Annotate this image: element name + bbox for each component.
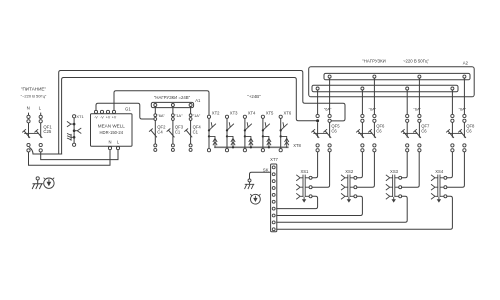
- wires into breaker QF6: [361, 122, 363, 137]
- XS3 pin contact: [395, 177, 399, 179]
- svg-text:XS1: XS1: [300, 169, 309, 174]
- XT7 terminal 6: [272, 200, 275, 203]
- circuit breaker QF1 2-pole: [24, 131, 30, 138]
- svg-text:XT3: XT3: [230, 111, 238, 116]
- svg-text:XS4: XS4: [435, 169, 444, 174]
- svg-text:"6А": "6А": [324, 107, 332, 112]
- XT5 junction dot lower: [262, 135, 264, 137]
- circuit breaker QF2: [151, 130, 157, 137]
- XS3 pin contact: [395, 195, 399, 197]
- A2 lower strip terminal: [406, 87, 409, 90]
- XS2 pin contact: [350, 186, 354, 188]
- XT3 fork contact: [227, 123, 234, 131]
- QF6 top terminal circles: [361, 114, 364, 117]
- svg-text:C6: C6: [421, 128, 427, 133]
- PSU bottom terminals: [108, 147, 111, 150]
- terminal strip A2 upper: [324, 73, 470, 79]
- wire XS2 middle contact to breaker: [357, 152, 375, 187]
- XS4 fork contact: [431, 175, 437, 180]
- input terminal circles: [27, 115, 30, 118]
- sensor symbol circle with arrow legend: [44, 178, 54, 188]
- XT1 junction dot 2: [73, 129, 76, 132]
- wire lower strip to QF7: [406, 90, 408, 114]
- XS1 pin contact: [305, 186, 309, 188]
- svg-text:XT8: XT8: [293, 143, 301, 148]
- XS2 pin contact: [350, 195, 354, 197]
- A2 lower strip terminal: [361, 87, 364, 90]
- QF8 bottom terminal circles: [451, 144, 454, 147]
- XT7 terminal 10: [272, 228, 275, 231]
- svg-text:C4: C4: [157, 129, 163, 134]
- XT3 plug arrow link: [227, 136, 233, 147]
- wire XS4 middle contact to breaker: [447, 152, 465, 187]
- wire lower strip to QF8: [451, 90, 453, 114]
- XT7 terminal 4: [272, 187, 275, 190]
- XT3 junction dot lower: [226, 135, 228, 137]
- XS2 fork contact: [341, 185, 347, 190]
- svg-text:N: N: [27, 106, 30, 111]
- XS4 pin contact: [440, 195, 444, 197]
- XT3 wire: [226, 118, 228, 148]
- wire XS2 bottom contact to XT7: [277, 196, 363, 215]
- QF3 bottom terminal circles: [171, 144, 174, 147]
- wire upper strip to QF7: [418, 78, 420, 114]
- wire XS4 top contact to breaker: [447, 152, 453, 178]
- svg-text:C6: C6: [376, 128, 382, 133]
- wire XS4 bottom contact to XT7: [277, 196, 453, 229]
- XT5 junction dot upper: [262, 129, 264, 131]
- PSU top terminals: [94, 110, 97, 113]
- XT4 bottom circle: [243, 149, 246, 152]
- svg-text:XS3: XS3: [390, 169, 399, 174]
- XT6 junction dot lower: [280, 135, 282, 137]
- XS3 fork contact: [386, 194, 392, 199]
- XT6 wire: [280, 118, 282, 148]
- wire XS3 top contact to breaker: [402, 152, 408, 178]
- svg-text:SK: SK: [263, 167, 269, 172]
- wire below breaker: [172, 137, 174, 144]
- QF8 top terminal circles: [451, 114, 454, 117]
- wire strip to breaker QF4: [190, 107, 192, 114]
- XT7 terminal 5: [272, 193, 275, 196]
- XT4 fork contact: [245, 123, 252, 131]
- XT6 fork contact: [281, 123, 288, 131]
- XT2 plug arrow link: [209, 136, 215, 147]
- svg-text:MEAN WELL: MEAN WELL: [98, 123, 126, 128]
- wire XS3 middle contact to breaker: [402, 152, 420, 187]
- XT1 fork contact 2: [74, 128, 81, 133]
- wire -V to QF2: [96, 103, 154, 119]
- QF7 top terminal circles: [406, 114, 409, 117]
- QF1 linking bar: [24, 132, 39, 134]
- svg-text:XT4: XT4: [248, 111, 256, 116]
- A2 upper strip terminal: [373, 75, 376, 78]
- XT7 terminal 9: [272, 221, 275, 224]
- terminal strip A2 lower: [312, 85, 458, 91]
- XS3 pin contact: [395, 186, 399, 188]
- XS1 body double line: [302, 175, 304, 197]
- wire B top run to QF5: [64, 78, 316, 121]
- circuit breaker QF4: [186, 130, 192, 137]
- circuit breaker QF3: [169, 130, 175, 137]
- svg-text:"+24В": "+24В": [247, 94, 261, 99]
- wire to breaker QF1: [28, 123, 30, 138]
- XT2 wire: [208, 118, 210, 148]
- XS4 pin contact: [440, 177, 444, 179]
- XT5 wire: [262, 118, 264, 148]
- XS1 fork contact: [297, 194, 303, 199]
- XT5 fork contact: [263, 123, 270, 131]
- A2 upper strip terminal: [328, 75, 331, 78]
- wire branch from N to risers: [30, 148, 62, 155]
- XT1 junction dot 3: [73, 136, 76, 139]
- XT7 terminal 1: [272, 166, 275, 169]
- svg-text:+V: +V: [112, 116, 117, 120]
- XS1 fork contact: [297, 175, 303, 180]
- svg-text:"НАГРУЗКИ =24В": "НАГРУЗКИ =24В": [154, 95, 191, 100]
- XS2 body double line: [347, 175, 349, 197]
- wire below breaker: [190, 137, 192, 144]
- XT3 bottom circle: [225, 149, 228, 152]
- power supply G1 MEAN WELL box: [91, 114, 133, 147]
- svg-text:G1: G1: [125, 107, 131, 112]
- XT3 junction dot upper: [226, 129, 228, 131]
- sensor symbol circle with arrow: [251, 194, 261, 204]
- svg-text:XS2: XS2: [345, 169, 354, 174]
- XT1 fork contact 1: [67, 122, 74, 127]
- circuit breaker QF8 2-pole: [448, 131, 454, 138]
- XS3 bottom arrow: [393, 197, 395, 200]
- XT7 terminal 7: [272, 207, 275, 210]
- SK contact circle: [248, 179, 251, 182]
- XT5 bottom circle: [261, 149, 264, 152]
- svg-text:C6: C6: [331, 128, 337, 133]
- wire: [172, 120, 174, 136]
- QF4 bottom terminal circles: [189, 144, 192, 147]
- A2 upper strip terminal: [463, 75, 466, 78]
- wire below breaker: [154, 137, 156, 144]
- QF3 top terminal circles: [172, 114, 175, 117]
- wire +V to XT2: [114, 91, 209, 115]
- XS4 fork contact: [431, 194, 437, 199]
- XS1 fork contact: [297, 185, 303, 190]
- svg-text:"6А": "6А": [369, 107, 377, 112]
- XS1 pin contact: [305, 177, 309, 179]
- XS4 pin contact: [440, 186, 444, 188]
- XS2 fork contact: [341, 175, 347, 180]
- XT7 terminal 3: [272, 180, 275, 183]
- XT4 junction dot upper: [244, 129, 246, 131]
- circuit breaker QF6 2-pole: [358, 131, 364, 138]
- svg-text:N: N: [108, 140, 111, 145]
- XS4 bottom arrow: [438, 197, 440, 200]
- block A2 outline: [309, 67, 475, 97]
- XT7 terminal 2: [272, 173, 275, 176]
- SK ground rake: [245, 182, 254, 189]
- wires into breaker QF7: [406, 122, 408, 137]
- wire strip to breaker QF3: [172, 107, 174, 114]
- svg-text:A2: A2: [463, 60, 469, 65]
- QF5 top terminal circles: [316, 114, 319, 117]
- XS3 fork contact: [386, 175, 392, 180]
- input terminal circles: [39, 115, 42, 118]
- wire XS1 top contact to breaker: [312, 152, 318, 178]
- ground electrode symbol: [36, 177, 39, 180]
- wire A top run to A2 area: [61, 71, 345, 121]
- wire XS2 top contact to breaker: [357, 152, 363, 178]
- wire upper strip to QF6: [373, 78, 375, 114]
- A2 lower strip terminal: [451, 87, 454, 90]
- XT5 plug arrow link: [263, 136, 269, 147]
- svg-text:"6А": "6А": [414, 107, 422, 112]
- QF2 top terminal circles: [154, 114, 157, 117]
- svg-text:"6А": "6А": [459, 107, 467, 112]
- wires into breaker QF8: [451, 122, 453, 137]
- XT2 bottom circle: [207, 149, 210, 152]
- QF4 top terminal circles: [189, 114, 192, 117]
- svg-text:XT2: XT2: [212, 111, 220, 116]
- svg-text:"ПИТАНИЕ": "ПИТАНИЕ": [21, 87, 47, 92]
- XT2 fork contact: [209, 123, 216, 131]
- XT6 bottom circle: [279, 149, 282, 152]
- XT1 junction dot 1: [73, 123, 76, 126]
- wire XS1 middle contact to breaker: [312, 152, 330, 187]
- XT4 wire: [244, 118, 246, 148]
- XS2 pin contact: [350, 177, 354, 179]
- XS1 pin contact: [305, 195, 309, 197]
- QF1 bottom terminal circles: [27, 143, 30, 146]
- svg-text:C1: C1: [193, 129, 199, 134]
- svg-text:C25: C25: [43, 129, 51, 134]
- XS4 body double line: [437, 175, 439, 197]
- svg-text:"~220 В 50Гц": "~220 В 50Гц": [21, 94, 47, 99]
- QF6 bottom terminal circles: [361, 144, 364, 147]
- XS3 body double line: [392, 175, 394, 197]
- A2 lower strip terminal: [316, 87, 319, 90]
- A1 strip terminal: [189, 104, 192, 107]
- terminal strip A1: [151, 102, 193, 107]
- wire to breaker QF1: [40, 123, 42, 138]
- A1 strip terminal: [171, 104, 174, 107]
- wire XS1 bottom contact to XT7: [277, 196, 318, 208]
- svg-text:"НАГРУЗКИ: "НАГРУЗКИ: [362, 58, 385, 63]
- wire upper strip to QF8: [463, 78, 465, 114]
- XS4 fork contact: [431, 185, 437, 190]
- input terminal stub: [40, 113, 42, 116]
- svg-text:A1: A1: [195, 98, 201, 103]
- XS3 fork contact: [386, 185, 392, 190]
- riser wire B: [62, 78, 64, 155]
- wire SK to XT7: [250, 172, 271, 179]
- QF5 bottom terminal circles: [316, 144, 319, 147]
- XS2 bottom arrow: [348, 197, 350, 200]
- wire: [154, 120, 156, 136]
- input terminal stub: [28, 113, 30, 116]
- svg-text:~220 В 50Гц": ~220 В 50Гц": [403, 58, 429, 63]
- QF2 bottom terminal circles: [154, 144, 157, 147]
- XT2 junction dot lower: [208, 135, 210, 137]
- XT1 bottom circle: [73, 143, 76, 146]
- XT6 plug arrow link: [281, 136, 287, 147]
- wires into breaker QF5: [317, 122, 319, 137]
- svg-text:"6А": "6А": [157, 113, 165, 118]
- circuit breaker QF5 2-pole: [313, 131, 319, 138]
- XT7 terminal 8: [272, 214, 275, 217]
- XT4 plug arrow link: [245, 136, 251, 147]
- bus XT8: [214, 146, 288, 148]
- svg-text:HDR-150-24: HDR-150-24: [100, 130, 124, 135]
- XS1 bottom arrow: [303, 197, 305, 200]
- svg-text:XT5: XT5: [266, 111, 274, 116]
- XT2 junction dot upper: [208, 129, 210, 131]
- svg-text:XT1: XT1: [76, 114, 84, 119]
- svg-text:+V: +V: [106, 116, 111, 120]
- svg-text:C1: C1: [175, 129, 181, 134]
- A1 strip terminal: [154, 104, 157, 107]
- wire lower strip to QF5: [317, 90, 319, 114]
- wire: [190, 120, 192, 136]
- XT1 rake contact 3: [67, 134, 74, 141]
- wire strip to breaker QF2: [154, 107, 156, 114]
- XT6 junction dot upper: [280, 129, 282, 131]
- wire XS3 bottom contact to XT7: [277, 196, 407, 222]
- wire upper strip to QF5: [329, 78, 331, 114]
- svg-text:XT6: XT6: [284, 111, 292, 116]
- circuit breaker QF7 2-pole: [403, 131, 409, 138]
- svg-text:"1А": "1А": [175, 113, 183, 118]
- QF7 bottom terminal circles: [406, 144, 409, 147]
- svg-text:"1А": "1А": [193, 113, 201, 118]
- XS2 fork contact: [341, 194, 347, 199]
- bus junction dots: [232, 146, 234, 148]
- A2 upper strip terminal: [418, 75, 421, 78]
- XT4 junction dot lower: [244, 135, 246, 137]
- riser wire A: [59, 71, 61, 155]
- svg-text:XT7: XT7: [270, 157, 278, 162]
- wire N to PSU: [29, 150, 111, 166]
- wire L to PSU: [41, 150, 118, 160]
- wire lower strip to QF6: [361, 90, 363, 114]
- svg-text:C6: C6: [466, 128, 472, 133]
